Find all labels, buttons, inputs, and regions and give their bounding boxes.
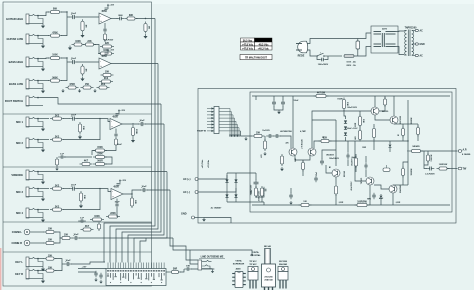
ground below J12 (41, 279, 45, 284)
wire bridge + rail (227, 172, 256, 174)
resistor R15 3K3 (99, 78, 113, 83)
diode D9 output clamp (380, 196, 383, 199)
wire C17 to line out jack sleeve (191, 268, 214, 270)
jack J11 KEY L (15, 257, 43, 267)
arrow end of bus 7 (251, 254, 253, 256)
resistor R40 10K (44, 255, 57, 260)
wire R23 down (92, 151, 96, 156)
wire bridge - rail (227, 201, 264, 203)
wire key join (55, 259, 62, 271)
op-amp U3A supply +15V (117, 179, 127, 185)
wire C7 to network (64, 156, 92, 158)
resistor R49 (358, 129, 361, 142)
resistor R21 2K2 (50, 136, 64, 141)
wire J3 tip to R11 (40, 57, 50, 60)
resistor R1 56K (48, 9, 62, 14)
terminal AC (-) (195, 191, 198, 194)
capacitor C22 10uF input (266, 134, 274, 138)
capacitor C14 10uF (64, 260, 72, 266)
svg-text:4558: 4558 (101, 55, 107, 58)
ground below R28 (131, 138, 135, 143)
ground below R24 (55, 167, 58, 171)
wire CN2 to amp input (241, 131, 253, 136)
transistor Q5 BD140 (332, 169, 340, 177)
svg-text:0,22R: 0,22R (339, 202, 344, 204)
svg-text:BD140: BD140 (343, 171, 346, 177)
selector plug bar (382, 33, 384, 47)
svg-text:A.P.: A.P. (463, 149, 468, 152)
svg-text:2SA1943: 2SA1943 (279, 263, 288, 266)
wire tail to rail (302, 170, 304, 176)
wire tap to line out jack (190, 250, 198, 264)
svg-text:100R/5W: 100R/5W (357, 202, 367, 204)
resistor R8 22K (83, 41, 96, 46)
ground bass EQ 2 (78, 89, 81, 93)
wire selector to transformer bottom (396, 47, 405, 55)
wire Q7 to - rail (392, 193, 394, 205)
capacitor C12 10uF (140, 186, 148, 192)
ground below R57 (263, 152, 266, 156)
terminal A.P. 8 OHMS (458, 150, 462, 153)
resistor R36 22K (130, 196, 135, 208)
svg-text:10K: 10K (48, 240, 53, 242)
wire U3A out (123, 190, 141, 194)
svg-text:KEY L: KEY L (15, 260, 23, 264)
transistor Q3 BD139 (371, 107, 379, 115)
resistor R45 10K input (252, 133, 265, 138)
connector CN1 pins (108, 263, 164, 269)
svg-text:39K: 39K (129, 15, 134, 17)
resistor R64 (354, 156, 357, 168)
connector CN2 P/AMP IN header (214, 107, 219, 134)
capacitor C7 1uF (58, 154, 66, 159)
resistor R43 4K7/2W (314, 92, 329, 98)
wire C28 return (325, 56, 328, 60)
svg-text:2K2: 2K2 (55, 136, 60, 138)
op-amp U1A 4558 (99, 10, 111, 24)
wire R62 to rail (384, 96, 386, 99)
resistor R63 driver emitter (416, 126, 419, 137)
wire R60 to Q7 (402, 176, 404, 185)
svg-text:2SA1943: 2SA1943 (399, 185, 402, 193)
svg-text:0R22/5W: 0R22/5W (411, 117, 413, 124)
resistor R28 100K (131, 125, 136, 138)
svg-text:560K: 560K (52, 77, 58, 79)
svg-text:2K2: 2K2 (55, 185, 60, 187)
ground below J2 (41, 44, 45, 49)
label box TR MALT/AW DIGIT (240, 55, 272, 60)
resistor R62 (383, 97, 386, 107)
svg-text:10uF: 10uF (141, 186, 147, 188)
wire NFB to Q2 base (314, 141, 321, 148)
svg-text:-48,3 Vdc: -48,3 Vdc (258, 43, 269, 46)
jack J4 BASS LOW (9, 79, 43, 89)
jack J1 GUITAR HIGH (6, 14, 43, 24)
resistor R38 10K (44, 240, 57, 245)
svg-text:-: - (112, 190, 113, 193)
resistor R61 (299, 203, 312, 206)
feedback network U3A: capacitor C10 10uF (116, 199, 118, 204)
svg-text:10K: 10K (362, 119, 364, 123)
wire comb join (55, 232, 60, 243)
op-amp U3A 4558 (111, 186, 123, 200)
op-amp U1B 4558 (99, 55, 111, 69)
wire guitar channel output to bus (136, 18, 155, 20)
svg-text:0R22/5W: 0R22/5W (411, 168, 413, 175)
wire varistor top (357, 39, 359, 42)
terminal AC (+) (195, 178, 198, 181)
svg-text:10K: 10K (64, 235, 69, 237)
op-amp U2A 4558 (110, 116, 122, 130)
svg-text:10uF: 10uF (71, 58, 77, 60)
svg-text:-47,6Vdc: -47,6Vdc (207, 159, 210, 168)
wire +47V rail (252, 95, 450, 97)
wire D9 top (380, 194, 382, 195)
wire R60 upper (403, 162, 408, 168)
wire bus 4 mic12 to connector (128, 124, 164, 263)
input sections outer box (3, 2, 152, 286)
svg-text:TIP 42C: TIP 42C (249, 263, 257, 266)
transistor Q2 BC546 (308, 148, 316, 156)
wire bus 2 bass to connector (116, 64, 158, 263)
wire U1A out (111, 18, 118, 20)
wire key output to connector (71, 262, 105, 264)
resistor R17 15K (81, 84, 94, 89)
wire mains bottom to switch (308, 50, 317, 56)
jack J10 MIC 4 (16, 208, 43, 218)
svg-text:100uF: 100uF (294, 100, 299, 102)
wire connector to R42 (166, 271, 169, 273)
resistor R18 3K3 (97, 84, 110, 89)
wire feedback join (94, 45, 101, 54)
wire input to Q1 base (280, 136, 291, 148)
svg-text:AC: AC (420, 30, 424, 33)
RCA jack COMB R (11, 240, 29, 246)
selector contacts 110V (374, 44, 396, 47)
svg-text:110V - 2A: 110V - 2A (346, 60, 356, 63)
svg-text:VISTA: VISTA (235, 260, 242, 263)
wire R23 to R22 (105, 147, 116, 151)
wire C29 stub (290, 188, 292, 193)
svg-text:220V: 220V (382, 29, 388, 31)
resistor R48 10K (358, 115, 363, 128)
resistor R19 2K2 (50, 115, 64, 120)
wire R21 joins mic node (63, 119, 100, 140)
svg-text:NR/4R5: NR/4R5 (412, 145, 420, 148)
capacitor C19 4700uF/50V (262, 187, 267, 194)
wire R48-R49 (359, 126, 361, 130)
wire to C4 (67, 61, 70, 63)
wire COMB R to R38 (30, 242, 44, 244)
connector CN2 pins with arrows (207, 107, 241, 137)
wire Q2 node to VAS (312, 119, 336, 121)
svg-text:10K: 10K (82, 126, 84, 130)
resistor R2 470K (48, 31, 62, 37)
wire fuse to selector (354, 47, 371, 57)
svg-text:BD139: BD139 (382, 111, 389, 113)
capacitor C28 10Kv/300V across switch (317, 56, 320, 60)
svg-text:2SC5200: 2SC5200 (279, 261, 288, 263)
capacitor C3 B68 (117, 15, 125, 20)
svg-text:KEY R: KEY R (15, 272, 23, 276)
wire summing node bass (61, 58, 67, 81)
wire Q3 emitter to Q4 base (375, 115, 390, 120)
wire R51 to - rail (335, 195, 337, 205)
resistor R56 (254, 186, 257, 198)
svg-text:68pF: 68pF (352, 157, 356, 159)
resistor R44 10K (342, 98, 347, 111)
capacitor C27 NFB 47uF (372, 193, 376, 200)
op-amp U1A supply +15V (105, 4, 115, 10)
wire C30 down (347, 160, 349, 167)
wire R64 top (355, 154, 357, 158)
resistor R60 0R22/5W (401, 167, 404, 178)
diode D5 (344, 120, 347, 123)
svg-text:2SA1943: 2SA1943 (264, 279, 273, 282)
fuse F1 (344, 54, 354, 57)
resistor R56b (260, 186, 263, 198)
svg-text:10R/10W: 10R/10W (431, 154, 433, 161)
resistor R34 4K7 (81, 225, 94, 231)
resistor R27 4K7 (80, 160, 93, 166)
wire D9 bottom (380, 199, 382, 205)
ground of R47 (280, 167, 284, 171)
svg-text:1M: 1M (147, 26, 149, 29)
ground below J6 (41, 127, 45, 132)
capacitor C25 10uF (314, 176, 318, 183)
svg-text:470K: 470K (52, 31, 58, 34)
svg-text:+15V: +15V (120, 110, 125, 112)
svg-text:2K2: 2K2 (55, 206, 60, 208)
svg-text:+15V: +15V (121, 180, 126, 182)
capacitor C17 (184, 265, 192, 270)
resistor R3 1M (81, 19, 86, 33)
feedback network U1A: capacitor C2 and resistor R4 2.2uF (104, 23, 106, 28)
svg-text:1M: 1M (84, 24, 86, 27)
svg-text:+15V: +15V (109, 5, 114, 7)
svg-text:4K7/2W: 4K7/2W (317, 92, 326, 95)
diode D4 1N4007 (234, 194, 237, 197)
resistor R23 150K (93, 147, 107, 152)
wire AC- to bridge (198, 188, 236, 192)
wire bus 0 return (104, 223, 152, 263)
svg-text:B1: B1 (329, 167, 331, 169)
wire tail (302, 160, 304, 162)
transistor Q1 BC546 (289, 148, 297, 156)
ground below C16 (99, 280, 102, 284)
capacitor C4 10uF (70, 58, 78, 64)
selector contacts 220V (374, 32, 396, 35)
svg-text:3K3: 3K3 (101, 84, 106, 86)
svg-text:10uF: 10uF (139, 120, 145, 122)
resistor R7 100K (72, 41, 85, 46)
wire varistor bottom (357, 49, 359, 56)
RCA jack COMB L (12, 229, 30, 235)
ground CN2 (244, 137, 247, 141)
wire Q4 to + rail (393, 96, 395, 116)
wire GND to box bottom (204, 218, 231, 224)
wire bass channel output to bus (111, 63, 158, 65)
mains plug REDE (296, 41, 308, 53)
capacitor C20 100uF rail (272, 100, 276, 107)
wire Q2 collector to Q3 base (312, 111, 371, 148)
wire C31 top (365, 156, 367, 163)
wire comb node to R39 (60, 237, 62, 239)
resistor R58 22K NFB (319, 138, 332, 143)
capacitor C8 10uF (138, 120, 146, 126)
feedback resistor R14 10K under U1B (101, 72, 114, 77)
ground below J7 (41, 148, 45, 153)
wire COMB L to R37 (30, 231, 44, 233)
wire rail to C20 (273, 96, 275, 100)
wire KEY L to R40 (40, 258, 45, 260)
svg-text:10K: 10K (48, 229, 53, 231)
wire rail to C21 (282, 96, 284, 100)
wire mic34 output to bus (147, 189, 170, 191)
varistor RV1 (356, 41, 360, 49)
resistor R9 39K (125, 15, 138, 20)
wire R19 to C5 (63, 118, 70, 120)
wire R25/R26 join (105, 157, 112, 164)
package TO-3P power transistor with tab (262, 249, 276, 290)
ground below J3 (41, 67, 45, 72)
wire C1 to op-amp U1A (77, 16, 100, 18)
wire R29 to C9 (63, 188, 70, 190)
resistor R65 (426, 153, 429, 163)
wire R62 to Q3 (379, 105, 385, 111)
svg-text:+48,3 Vdc: +48,3 Vdc (258, 47, 270, 50)
transistor Q7 2SA1943 (389, 185, 397, 193)
wire Q5 base to C24 (326, 165, 332, 173)
resistor R10 1M (144, 22, 149, 34)
svg-text:4x 1N4007: 4x 1N4007 (211, 207, 222, 210)
capacitor C15 rail decoupling (94, 271, 97, 278)
jack J12 KEY R (15, 269, 43, 279)
svg-text:100nF/400V: 100nF/400V (329, 157, 340, 160)
wire Q6 to - rail (369, 185, 371, 205)
capacitor C24 100nF/400V (320, 159, 324, 166)
ground below J11 (41, 267, 45, 272)
svg-text:2,2uF/250V: 2,2uF/250V (425, 174, 435, 176)
svg-text:10K: 10K (186, 265, 190, 267)
svg-text:10uF: 10uF (71, 185, 77, 187)
resistor R55 120R/10W (437, 167, 450, 170)
wire C31 bottom (365, 170, 367, 178)
wire C24 top (322, 150, 336, 159)
wire input node to R57 (264, 136, 266, 141)
package TO-220 2SC5200 (278, 267, 288, 289)
resistor R11 100K (48, 55, 62, 60)
svg-text:47uF/100V: 47uF/100V (350, 181, 353, 191)
svg-text:1uF: 1uF (80, 218, 85, 220)
svg-text:GUITAR HIGH: GUITAR HIGH (6, 17, 23, 21)
svg-text:22K: 22K (134, 200, 136, 204)
resistor R51 470R (334, 184, 337, 196)
jack J7 MIC 2 (16, 138, 43, 148)
capacitor C31 driver bypass (364, 163, 367, 170)
ground below R13 (80, 77, 84, 82)
resistor R42 36R (169, 269, 181, 274)
resistor R24 1K (55, 157, 58, 167)
wire J1 tip to R1 (40, 12, 50, 16)
op-amp U1B supply +15V (105, 49, 115, 55)
resistor R37 10K (44, 229, 57, 234)
resistor R59 0R22/5W (401, 127, 404, 138)
transformer secondary terminals (412, 29, 419, 56)
svg-text:10K: 10K (48, 255, 53, 257)
wire out to R36 (131, 194, 133, 198)
svg-text:TIP 41C: TIP 41C (249, 260, 257, 263)
svg-text:36,5 Vac: 36,5 Vac (243, 39, 253, 42)
resistor R13 1M (81, 64, 86, 76)
ground below R30 (79, 204, 83, 209)
svg-text:REDE: REDE (298, 55, 305, 58)
wire Q5 to R51 (335, 177, 337, 184)
svg-text:10K: 10K (48, 267, 53, 269)
svg-text:100K: 100K (75, 41, 81, 43)
svg-text:100K: 100K (52, 55, 58, 57)
wire C30 to NFB (347, 141, 349, 153)
svg-text:TNPRC500: TNPRC500 (405, 28, 417, 30)
svg-text:P/AMP IN: P/AMP IN (197, 130, 206, 133)
wire output to A.P. terminal (421, 150, 458, 152)
wire comb output to bus (79, 237, 173, 239)
red scan mark at left edge (0, 248, 1, 290)
ground below C29 (289, 201, 292, 205)
svg-text:4K7: 4K7 (84, 160, 89, 163)
bass EQ bottom row: resistor R16 470R (66, 83, 79, 89)
power amplifier assembly outer box (198, 89, 456, 224)
capacitor C30 lag compensation (346, 153, 349, 160)
wire to TW terminal (447, 168, 458, 170)
resistor R22 (114, 137, 117, 147)
wire GND to ground (195, 217, 205, 219)
diode D7 (344, 132, 347, 135)
resistor R31 2K2 (50, 206, 64, 211)
wire R42 up (180, 269, 184, 272)
wire C10 to R32 (116, 207, 119, 217)
jack J9 MIC 3 (16, 187, 43, 197)
divider guitar/mic sections (3, 113, 152, 115)
ground below J8 (41, 180, 45, 185)
svg-text:+15V: +15V (82, 267, 87, 269)
output node vertical wire (407, 100, 409, 185)
wire bus 5 videoke to connector (134, 172, 167, 263)
svg-text:150K: 150K (97, 147, 103, 149)
wire Q1/Q2 emitters (295, 155, 310, 160)
svg-text:10Kv/300V: 10Kv/300V (318, 64, 329, 66)
diode D2 1N4007 (225, 194, 228, 197)
resistor R41 10K (44, 267, 57, 272)
capacitor C13 10uF (72, 234, 80, 240)
svg-text:10K: 10K (83, 195, 85, 199)
capacitor C16 rail decoupling (99, 273, 102, 280)
svg-text:-: - (100, 60, 101, 63)
connector CN1 pin labels (107, 270, 165, 283)
diode D3 1N4007 (234, 179, 237, 182)
power amplifier inner box (250, 92, 452, 212)
resistor R33 100K (90, 216, 104, 221)
ground of rail caps (277, 110, 281, 114)
wire R65 top (427, 151, 429, 155)
svg-text:GND: GND (181, 213, 187, 216)
wire to C1 (67, 16, 70, 18)
diode bridge D1-D4 4x 1N4007 (227, 173, 236, 202)
wire U2A out (122, 123, 139, 125)
capacitor C21 100nF rail (281, 100, 285, 107)
wire R31 joins mic node (63, 189, 100, 210)
ground below J13 (211, 270, 214, 274)
